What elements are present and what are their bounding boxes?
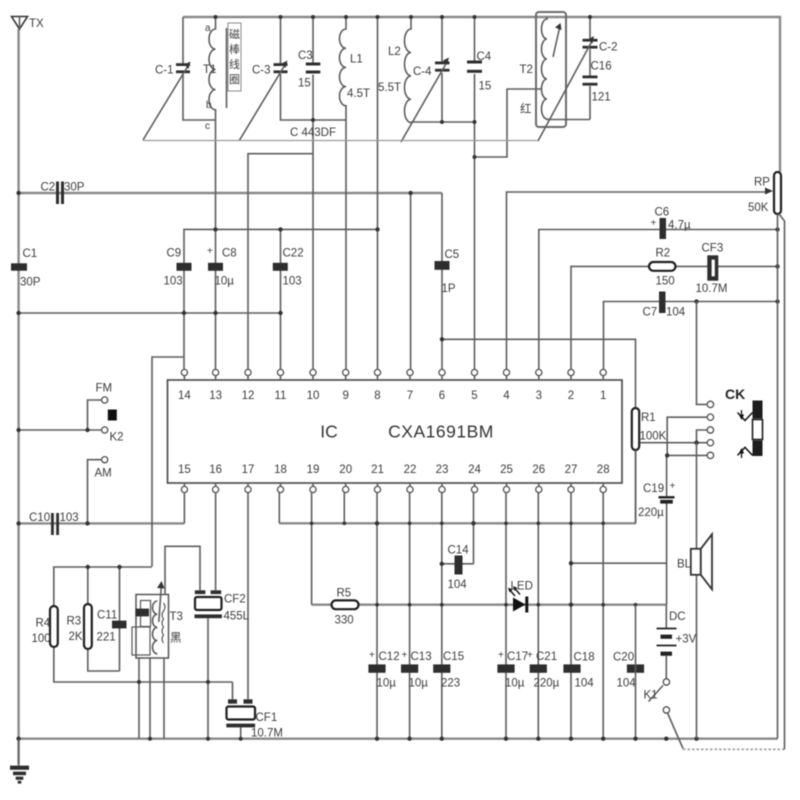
svg-text:C16: C16 (591, 61, 612, 73)
svg-text:LED: LED (511, 581, 533, 593)
svg-text:104: 104 (617, 678, 637, 690)
svg-text:221: 221 (97, 632, 116, 644)
svg-text:C8: C8 (222, 248, 237, 260)
svg-text:12: 12 (242, 390, 255, 402)
svg-text:红: 红 (520, 103, 532, 116)
svg-text:5: 5 (471, 390, 477, 402)
svg-text:10µ: 10µ (505, 678, 525, 690)
svg-text:CF1: CF1 (256, 712, 278, 724)
svg-text:C 443DF: C 443DF (290, 127, 336, 139)
svg-text:黑: 黑 (170, 632, 182, 645)
svg-text:15: 15 (479, 81, 492, 93)
svg-text:C-3: C-3 (252, 65, 271, 77)
svg-text:T2: T2 (520, 64, 533, 76)
svg-text:C-4: C-4 (413, 66, 432, 78)
svg-text:+: + (527, 650, 533, 661)
svg-text:10.7M: 10.7M (696, 283, 728, 295)
svg-text:+: + (670, 481, 676, 492)
svg-text:TX: TX (29, 18, 44, 30)
svg-text:C21: C21 (536, 651, 557, 663)
svg-text:CK: CK (725, 386, 745, 402)
svg-text:103: 103 (60, 512, 79, 524)
svg-text:R3: R3 (67, 616, 82, 628)
svg-text:20: 20 (339, 464, 352, 476)
svg-text:100K: 100K (640, 431, 667, 443)
svg-text:10µ: 10µ (215, 276, 235, 288)
svg-text:BL: BL (677, 559, 692, 571)
svg-text:103: 103 (283, 276, 302, 288)
svg-text:2: 2 (568, 390, 574, 402)
svg-text:330: 330 (335, 615, 354, 627)
svg-text:2K: 2K (69, 631, 83, 643)
svg-text:FM: FM (96, 383, 113, 395)
svg-text:1P: 1P (442, 283, 456, 295)
svg-text:104: 104 (448, 579, 468, 591)
svg-text:15: 15 (298, 78, 311, 90)
svg-text:C14: C14 (448, 545, 470, 557)
svg-text:27: 27 (565, 464, 578, 476)
svg-text:R1: R1 (641, 412, 656, 424)
svg-text:30P: 30P (20, 277, 41, 289)
svg-text:6: 6 (439, 390, 445, 402)
svg-text:10µ: 10µ (409, 678, 429, 690)
svg-text:C22: C22 (283, 248, 304, 260)
svg-text:b: b (206, 100, 212, 111)
svg-text:30P: 30P (64, 182, 85, 194)
svg-text:T3: T3 (170, 611, 183, 623)
svg-text:16: 16 (209, 464, 222, 476)
svg-text:26: 26 (532, 464, 545, 476)
svg-text:AM: AM (95, 468, 112, 480)
svg-text:28: 28 (597, 464, 610, 476)
svg-text:K1: K1 (644, 690, 658, 702)
svg-text:CF2: CF2 (224, 594, 246, 606)
svg-text:C2: C2 (41, 182, 56, 194)
svg-text:L2: L2 (388, 46, 401, 58)
svg-text:10µ: 10µ (377, 678, 397, 690)
svg-text:+: + (207, 246, 213, 257)
svg-text:C11: C11 (97, 610, 117, 622)
svg-text:104: 104 (666, 307, 686, 319)
svg-text:9: 9 (342, 390, 348, 402)
svg-text:C17: C17 (507, 651, 528, 663)
svg-text:10: 10 (307, 390, 320, 402)
svg-text:104: 104 (575, 678, 595, 690)
svg-text:c: c (205, 121, 210, 132)
svg-text:7: 7 (407, 390, 413, 402)
svg-text:4.5T: 4.5T (347, 88, 370, 100)
svg-text:C18: C18 (574, 652, 595, 664)
svg-text:220µ: 220µ (638, 507, 664, 519)
svg-text:C6: C6 (655, 207, 670, 219)
svg-text:121: 121 (592, 92, 611, 104)
svg-text:C20: C20 (613, 652, 634, 664)
svg-text:C5: C5 (445, 249, 460, 261)
svg-text:18: 18 (274, 464, 287, 476)
svg-text:3: 3 (536, 390, 542, 402)
svg-text:23: 23 (436, 464, 449, 476)
svg-text:100: 100 (32, 633, 51, 645)
svg-text:4: 4 (503, 390, 510, 402)
svg-text:C19: C19 (643, 483, 664, 495)
svg-text:25: 25 (500, 464, 513, 476)
svg-text:11: 11 (275, 390, 287, 402)
svg-text:C4: C4 (477, 51, 492, 63)
svg-text:50K: 50K (748, 202, 769, 214)
svg-text:13: 13 (209, 390, 222, 402)
svg-text:CXA1691BM: CXA1691BM (388, 422, 494, 442)
svg-text:+: + (651, 218, 657, 229)
svg-text:a: a (205, 23, 211, 34)
svg-text:150: 150 (656, 276, 675, 288)
svg-text:1: 1 (600, 390, 606, 402)
svg-text:+: + (498, 650, 504, 661)
svg-text:IC: IC (320, 422, 338, 442)
svg-text:5.5T: 5.5T (378, 82, 401, 94)
svg-text:C-2: C-2 (599, 42, 618, 54)
svg-text:4.7µ: 4.7µ (668, 220, 691, 232)
svg-text:C3: C3 (298, 50, 313, 62)
svg-text:C9: C9 (167, 248, 182, 260)
svg-text:17: 17 (242, 464, 255, 476)
svg-text:19: 19 (307, 464, 320, 476)
svg-text:455L: 455L (224, 611, 250, 623)
svg-text:15: 15 (178, 464, 191, 476)
svg-text:24: 24 (468, 464, 481, 476)
svg-text:C-1: C-1 (155, 65, 174, 77)
svg-text:CF3: CF3 (702, 243, 724, 255)
svg-text:21: 21 (371, 464, 384, 476)
svg-text:C12: C12 (379, 651, 400, 663)
svg-text:R4: R4 (36, 618, 51, 630)
svg-text:RP: RP (754, 177, 770, 189)
svg-text:8: 8 (374, 390, 380, 402)
svg-text:C15: C15 (443, 651, 464, 663)
svg-text:+: + (369, 650, 375, 661)
svg-text:+: + (402, 650, 408, 661)
svg-text:R2: R2 (656, 248, 671, 260)
svg-text:10.7M: 10.7M (251, 728, 283, 740)
svg-text:C7: C7 (643, 307, 658, 319)
svg-text:R5: R5 (337, 588, 352, 600)
svg-text:C13: C13 (411, 651, 432, 663)
svg-text:K2: K2 (110, 432, 124, 444)
svg-text:+3V: +3V (676, 634, 697, 646)
svg-text:C10: C10 (29, 512, 50, 524)
svg-text:14: 14 (178, 390, 191, 402)
svg-text:T1: T1 (203, 64, 216, 76)
svg-text:223: 223 (441, 678, 460, 690)
svg-text:22: 22 (404, 464, 417, 476)
svg-text:L1: L1 (350, 54, 363, 66)
svg-text:220µ: 220µ (534, 678, 560, 690)
svg-text:DC: DC (669, 611, 686, 623)
svg-text:103: 103 (164, 276, 183, 288)
svg-text:C1: C1 (23, 248, 38, 260)
